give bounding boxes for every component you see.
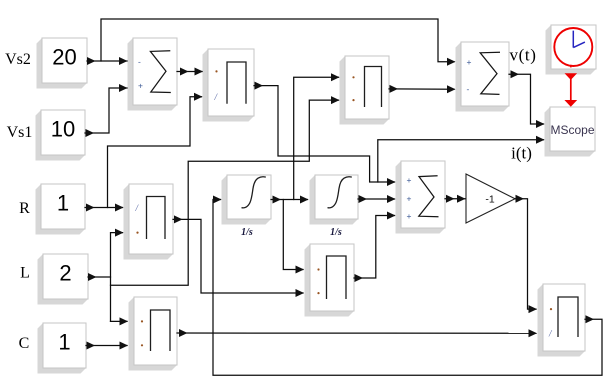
- product/div block P1: [203, 49, 255, 122]
- product block P4: [129, 297, 178, 371]
- svg-text:+: +: [407, 211, 412, 221]
- label i(t): [511, 144, 532, 163]
- wire S1 to P1 input1: [177, 68, 203, 76]
- svg-text:-: -: [467, 84, 470, 94]
- constant block L value 2: [38, 254, 89, 305]
- svg-text:L: L: [20, 265, 30, 282]
- sum block S3 (three + inputs): [396, 161, 446, 234]
- svg-text:10: 10: [51, 117, 75, 142]
- svg-text:1/s: 1/s: [330, 227, 342, 238]
- label 1/s under I2: [330, 227, 342, 238]
- svg-text:+: +: [138, 81, 143, 91]
- wire I2 to S3 input2: [358, 195, 396, 203]
- svg-text:20: 20: [52, 45, 76, 70]
- wire I1 to I2: [271, 196, 309, 204]
- wire P2 output to S2 minus: [389, 85, 456, 93]
- svg-text:2: 2: [59, 261, 71, 286]
- label 1/s under I1: [241, 227, 253, 238]
- wire P6 output feedback loop to I1 input: [213, 196, 602, 376]
- wire S2 output to MScope input1: [509, 70, 545, 128]
- wire Vs1 to S1 plus: [85, 84, 128, 137]
- svg-text:+: +: [467, 57, 472, 67]
- wire i(t) branch to MScope input2: [378, 136, 545, 182]
- wire P3 output to P5 input2: [173, 215, 304, 297]
- svg-text:Vs2: Vs2: [5, 51, 31, 68]
- svg-text:+: +: [407, 175, 412, 185]
- product block P5: [305, 244, 355, 317]
- sum block S2 (v(t) output sum): [456, 42, 510, 112]
- svg-text:1: 1: [57, 191, 69, 216]
- label L: [20, 265, 30, 282]
- wire tap I1 output down to P5 input1: [283, 200, 304, 274]
- product/div block P6: [538, 284, 586, 357]
- sum block S1 (Vs difference): [128, 38, 178, 111]
- event wire clock to MScope (red): [564, 65, 577, 107]
- constant block Vs2 value 20: [37, 38, 88, 89]
- product/div block P3: [124, 184, 174, 260]
- wire tap I1 output up to P2 input1: [294, 73, 340, 199]
- label Vs1: [7, 124, 33, 141]
- wire top rail Vs2 branch to S2 plus: [101, 19, 456, 66]
- wire R to P3 input1: [85, 204, 124, 212]
- svg-text:MScope: MScope: [550, 123, 594, 137]
- product block P2: [340, 56, 390, 125]
- label Vs2: [5, 51, 31, 68]
- svg-text:+: +: [407, 193, 412, 203]
- gain block G1 value -1: [466, 174, 515, 223]
- svg-text:i(t): i(t): [511, 144, 532, 163]
- constant block C value 1: [38, 323, 87, 374]
- wire R branch to P1 divisor input: [108, 93, 203, 208]
- svg-text:-: -: [138, 57, 141, 67]
- integrator I2: [310, 175, 359, 225]
- constant block Vs1 value 10: [36, 110, 86, 161]
- wire L branch to P2 input2: [111, 96, 340, 285]
- svg-text:Vs1: Vs1: [7, 124, 33, 141]
- integrator I1: [222, 175, 272, 225]
- MScope block: [545, 107, 596, 157]
- wire P5 output to S3 input3: [354, 212, 396, 283]
- svg-text:R: R: [19, 200, 30, 217]
- wire S3 output to gain: [445, 195, 466, 203]
- label v(t): [510, 46, 537, 65]
- svg-text:v(t): v(t): [510, 46, 537, 65]
- label R: [19, 200, 30, 217]
- wire L bus vertical with taps to P3 and P4: [111, 229, 129, 326]
- svg-text:1: 1: [58, 330, 70, 355]
- clock block: [546, 25, 597, 75]
- wire P1 output to S3 input1: [254, 82, 396, 186]
- label C: [19, 335, 30, 352]
- wire C to P4 input2: [86, 342, 128, 350]
- wire L to vertical bus: [88, 273, 111, 281]
- wire Vs2 to S1: [87, 57, 128, 65]
- svg-text:-1: -1: [485, 193, 494, 205]
- wire gain output to P6 input1: [515, 195, 537, 313]
- svg-text:1/s: 1/s: [241, 227, 253, 238]
- wire P4 output to P6 divisor input: [177, 329, 537, 337]
- constant block R value 1: [36, 184, 86, 235]
- svg-text:C: C: [19, 335, 30, 352]
